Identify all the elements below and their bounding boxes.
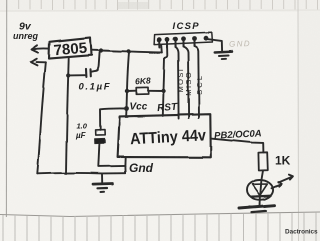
wire second arrow to left rail [36,61,46,63]
node 6K8 left [125,89,129,93]
wire left ground rail [37,62,46,174]
LED D1 circle [246,180,273,200]
wire MOSI from ICSP pin3 [175,42,179,119]
wire down from 0.1uF node to ground rail [66,76,68,174]
pin 3 dot [173,37,178,42]
node at 7805 output [99,48,103,52]
ground symbol (LED) [239,205,275,208]
IC U2 ATTiny44 box [118,114,211,157]
wire rail corner up to ICSP pin1 [159,45,161,53]
resistor R2 1K body [258,152,267,170]
wire PB2/OC0A out [211,139,264,153]
pin 6 dot [204,36,209,41]
pin 1 dot [157,37,162,42]
wire Vcc rail down to ATTiny [126,51,129,115]
wire bottom ground rail [37,172,125,175]
left page margin line [5,0,7,217]
node Vcc rail branch [127,49,131,53]
capacitor C2 10uF bottom plate (filled) [95,138,105,143]
wire gnd net vertical to ATTiny Gnd pin [124,157,126,173]
capacitor C1 0.1uF plates [85,69,88,77]
pin 2 dot [165,37,170,42]
resistor R1 6K8 leads [127,90,136,92]
node Vcc / 10uF branch [124,106,129,111]
wire 0.1uF left lead [68,74,85,76]
node 0.1uF junction [66,73,70,77]
capacitor C2 10uF top wire [100,108,127,129]
pin stubs [158,42,160,48]
bottom pad edge line [0,212,320,217]
pin 5 dot [192,36,197,41]
node 6K8 right / RST [161,89,165,93]
ground symbol (ICSP) [215,50,232,53]
resistor R1 6K8 body [136,87,148,94]
wire 7805 output rail [92,50,162,52]
LED D1 triangle [252,184,267,195]
wire ICSP pin6 to ground [206,39,223,51]
wire SCK from ICSP pin5 [194,42,199,118]
bottom ruled lines [3,212,316,241]
faint top tick grid lines [19,0,318,10]
LED light arrows [272,184,282,188]
wire 10uF bottom to gnd net [98,143,125,166]
wire 0.1uF right lead up to +5V rail [91,52,100,72]
connector J1 ICSP box [154,32,212,44]
wire MISO from ICSP pin4 [183,42,189,119]
wire LED to ground [259,196,261,206]
wire RST from ICSP pin2 [163,42,168,116]
ground symbol (main) [101,173,103,182]
capacitor C2 10uF top plate [96,130,106,135]
LED D1 cathode bar [251,195,270,198]
wire 7805 bottom lead [67,58,70,75]
LED D1 anode lead through [260,171,263,196]
pin 4 dot [181,36,186,41]
regulator U1 7805 box [49,37,92,58]
right page line [297,0,300,241]
wire 9v input arrow [33,47,50,50]
